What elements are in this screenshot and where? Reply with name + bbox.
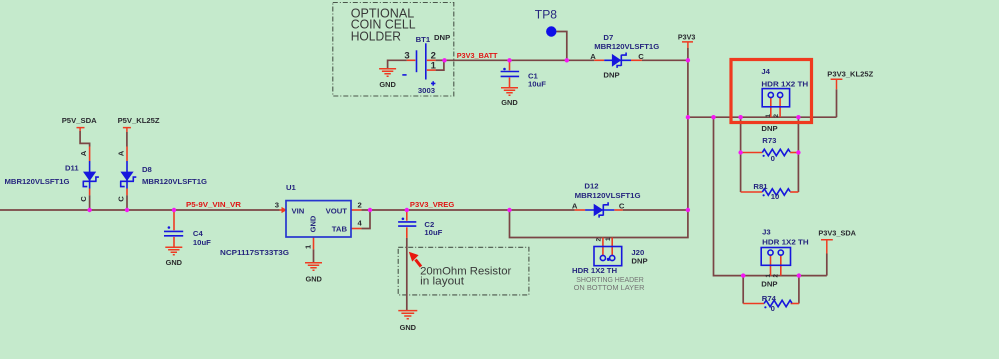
svg-text:P5V_SDA: P5V_SDA <box>62 116 97 125</box>
svg-text:DNP: DNP <box>631 256 647 265</box>
svg-text:HDR 1X2 TH: HDR 1X2 TH <box>762 237 809 246</box>
svg-text:D11: D11 <box>65 164 79 173</box>
svg-text:DNP: DNP <box>603 71 619 80</box>
svg-text:C: C <box>117 196 126 202</box>
svg-text:A: A <box>117 150 126 156</box>
svg-text:TP8: TP8 <box>535 10 557 22</box>
svg-text:10: 10 <box>771 192 780 201</box>
svg-text:P3V3_BATT: P3V3_BATT <box>457 51 498 60</box>
svg-text:ON BOTTOM LAYER: ON BOTTOM LAYER <box>574 283 645 292</box>
svg-text:1: 1 <box>605 237 612 241</box>
svg-text:D7: D7 <box>603 33 613 42</box>
svg-text:C4: C4 <box>193 229 204 238</box>
svg-text:1: 1 <box>431 60 437 71</box>
svg-text:VIN: VIN <box>292 207 305 216</box>
svg-text:DNP: DNP <box>761 124 777 133</box>
svg-text:U1: U1 <box>286 183 297 192</box>
svg-text:HOLDER: HOLDER <box>351 30 401 44</box>
svg-text:1: 1 <box>765 114 772 118</box>
svg-text:P3V3_SDA: P3V3_SDA <box>818 228 856 237</box>
svg-text:GND: GND <box>305 275 322 284</box>
svg-text:10uF: 10uF <box>424 228 442 237</box>
svg-text:TAB: TAB <box>332 225 348 234</box>
svg-text:2: 2 <box>773 274 780 278</box>
svg-text:A: A <box>79 150 88 156</box>
svg-text:C: C <box>79 196 88 202</box>
svg-text:1: 1 <box>765 274 772 278</box>
svg-text:MBR120VLSFT1G: MBR120VLSFT1G <box>594 42 659 51</box>
svg-text:0: 0 <box>771 304 775 313</box>
svg-text:MBR120VLSFT1G: MBR120VLSFT1G <box>5 177 70 186</box>
svg-text:R74: R74 <box>762 294 777 303</box>
svg-text:J3: J3 <box>762 227 771 236</box>
svg-text:GND: GND <box>166 258 183 267</box>
svg-text:3003: 3003 <box>418 86 435 95</box>
svg-text:P3V3_VREG: P3V3_VREG <box>410 200 454 209</box>
svg-text:MBR120VLSFT1G: MBR120VLSFT1G <box>575 191 641 200</box>
svg-text:C: C <box>619 202 625 211</box>
svg-text:0: 0 <box>771 154 775 163</box>
svg-text:in layout: in layout <box>420 275 465 287</box>
svg-text:HDR 1X2 TH: HDR 1X2 TH <box>761 79 808 88</box>
svg-text:HDR 1X2 TH: HDR 1X2 TH <box>572 266 618 275</box>
svg-text:10uF: 10uF <box>193 238 211 247</box>
svg-text:BT1: BT1 <box>416 35 431 44</box>
svg-text:MBR120VLSFT1G: MBR120VLSFT1G <box>142 177 207 186</box>
svg-text:2: 2 <box>595 238 602 242</box>
svg-text:P5V_KL25Z: P5V_KL25Z <box>118 116 160 125</box>
svg-text:3: 3 <box>404 50 409 61</box>
svg-text:P3V3: P3V3 <box>678 33 696 42</box>
svg-text:R81: R81 <box>753 182 768 191</box>
svg-text:P3V3_KL25Z: P3V3_KL25Z <box>827 70 873 79</box>
svg-text:A: A <box>572 202 578 211</box>
svg-text:1: 1 <box>304 244 313 249</box>
svg-text:2: 2 <box>773 114 780 118</box>
svg-text:A: A <box>590 52 596 61</box>
svg-text:DNP: DNP <box>761 280 777 289</box>
svg-text:D8: D8 <box>142 165 153 174</box>
svg-text:D12: D12 <box>584 181 598 190</box>
svg-text:R73: R73 <box>762 136 776 145</box>
svg-text:GND: GND <box>379 80 396 89</box>
svg-text:DNP: DNP <box>434 33 450 42</box>
svg-text:GND: GND <box>308 215 317 232</box>
svg-text:P5-9V_VIN_VR: P5-9V_VIN_VR <box>186 200 242 209</box>
svg-text:C: C <box>638 52 644 61</box>
svg-text:3: 3 <box>275 200 279 209</box>
svg-text:GND: GND <box>501 98 518 107</box>
svg-text:4: 4 <box>358 218 363 227</box>
svg-text:VOUT: VOUT <box>326 207 348 216</box>
svg-text:NCP1117ST33T3G: NCP1117ST33T3G <box>220 248 289 257</box>
svg-text:J4: J4 <box>761 67 770 76</box>
svg-text:2: 2 <box>358 200 362 209</box>
svg-text:10uF: 10uF <box>528 79 546 88</box>
svg-text:GND: GND <box>400 323 417 332</box>
